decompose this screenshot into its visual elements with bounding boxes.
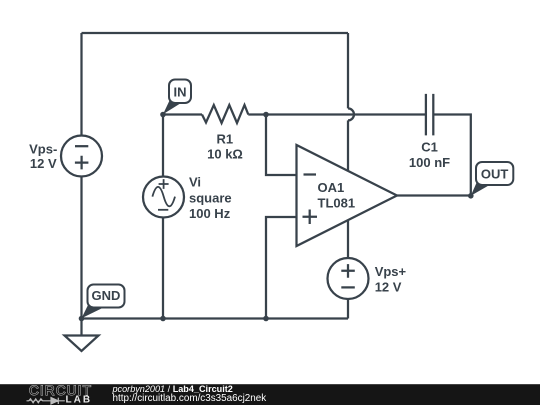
wire Vps- bottom lead [80, 177, 82, 319]
flag OUT [471, 162, 514, 196]
wire hop over feedback [348, 108, 354, 120]
wire inverting input [266, 115, 297, 176]
svg-text:Vps-: Vps- [29, 142, 57, 157]
node noninverting bottom junction dot [263, 316, 269, 322]
node IN junction dot [160, 112, 166, 118]
svg-text:Vps+: Vps+ [375, 264, 407, 279]
op-amp OA1 TL081 [297, 145, 398, 246]
wire Vi top lead [162, 115, 164, 177]
wire feedback horizontal to C1 [266, 113, 426, 115]
svg-text:12 V: 12 V [30, 156, 57, 171]
flag GND [82, 285, 125, 319]
voltage source Vi (square 100 Hz) [143, 177, 184, 218]
node GND junction dot [79, 316, 85, 322]
footer bar [0, 384, 540, 405]
wire non-inverting input [266, 217, 297, 319]
voltage source Vps- (V1) [61, 136, 102, 177]
svg-text:100 nF: 100 nF [409, 155, 450, 170]
resistor R1 [202, 105, 248, 123]
svg-text:square: square [189, 190, 232, 205]
svg-text:R1: R1 [216, 132, 233, 147]
node inverting junction dot [263, 112, 269, 118]
svg-text:GND: GND [92, 288, 121, 303]
ground [65, 319, 99, 352]
wire IN node to R1 [163, 113, 202, 115]
svg-text:TL081: TL081 [318, 196, 356, 211]
wire opamp V+ pin lower [347, 120, 349, 171]
svg-text:12 V: 12 V [375, 280, 402, 295]
wire Vi bottom lead [162, 218, 164, 319]
svg-text:C1: C1 [421, 140, 438, 155]
wire Vps- top lead [80, 33, 82, 136]
wire bottom rail [82, 317, 349, 319]
capacitor C1 plates [426, 94, 433, 135]
svg-text:100 Hz: 100 Hz [189, 206, 231, 221]
wire C1 to OUT node [433, 115, 471, 197]
svg-text:OA1: OA1 [318, 180, 345, 195]
wire opamp output [397, 194, 471, 196]
svg-text:IN: IN [174, 85, 187, 100]
footer logo doodle [27, 398, 65, 404]
wire opamp V- pin to Vps+ [347, 221, 349, 259]
svg-text:Vi: Vi [189, 175, 201, 190]
wire top rail [82, 32, 349, 34]
wire R1 to inverting node [248, 113, 266, 115]
wire opamp V+ pin upper [347, 33, 349, 108]
svg-text:LAB: LAB [66, 395, 93, 405]
flag IN [163, 80, 191, 115]
voltage source Vps+ (V2) [328, 258, 369, 299]
svg-text:http://circuitlab.com/c3s35a6c: http://circuitlab.com/c3s35a6cj2nek [113, 393, 267, 404]
node OUT junction dot [468, 193, 474, 199]
svg-text:OUT: OUT [481, 167, 509, 182]
svg-text:10 kΩ: 10 kΩ [207, 147, 243, 162]
wire Vps+ bottom lead [347, 299, 349, 319]
node Vi bottom junction dot [160, 316, 166, 322]
